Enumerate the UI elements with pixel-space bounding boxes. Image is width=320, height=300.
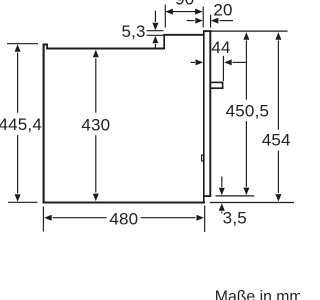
svg-text:450,5: 450,5 [226,101,270,120]
notch on bar left [201,155,203,162]
arrowhead 44 pointing left [224,59,232,65]
dimension line 454 [277,41,279,194]
dimension line 90 [166,11,202,13]
left wall [43,44,45,204]
arrowhead 450,5 down [243,188,249,196]
arrowhead 445,4 up [15,44,21,52]
lower bottom reference line [210,202,294,204]
arrowhead 445,4 down [15,194,21,202]
extension line 480 right [204,206,206,233]
front bar right edge [209,30,211,197]
wall top stub [43,44,49,46]
top reference line right of bar [211,30,288,32]
dimension line 430 [95,59,97,193]
arrowhead 3,5 up [219,203,225,211]
upper bottom reference line [216,195,255,197]
svg-text:20: 20 [213,1,232,20]
extension line 480 left [42,207,44,232]
front bar top edge [203,30,211,32]
white backing 454 [261,130,292,151]
svg-text:430: 430 [81,115,110,134]
front bar left edge [203,30,205,203]
extension line 44 [222,56,224,81]
dimension line 445,4 [17,53,19,194]
svg-text:5,3: 5,3 [121,22,145,41]
dimension line 480 [53,217,196,219]
arrowhead 90 right [195,9,203,15]
svg-text:3,5: 3,5 [223,208,247,227]
extension line bar right top [210,15,212,28]
dimension 5,3 lower shaft [154,44,156,48]
arrowhead 20 pointing left [211,18,219,24]
extension line 90 left [164,5,166,28]
dimension 3,5 lower shaft [221,212,223,214]
arrowhead 430 down [93,194,99,202]
top surface left [46,48,165,50]
front bar bottom edge [203,195,211,197]
arrowhead 480 left [44,215,52,221]
svg-text:44: 44 [211,38,230,57]
arrowhead 454 down [275,194,281,202]
arrowhead 454 up [275,32,281,40]
arrowhead 20 pointing right [195,18,203,24]
tick 445,4 top [7,43,38,45]
arrowhead 90 left [165,9,173,15]
svg-text:445,4: 445,4 [0,115,42,134]
tick 5,3 lower [147,34,164,36]
tick 445,4 bottom [8,201,38,203]
white backing 450,5 [227,100,268,122]
tab right edge [222,82,224,89]
arrowhead 480 right [196,215,204,221]
dimension line 450,5 [245,41,247,187]
top surface right [163,34,203,36]
white backing 445,4 [0,113,42,136]
extension line bar left top [202,7,204,28]
white backing 430 [81,113,112,136]
dimension 20 right shaft [220,20,234,22]
dimension 5,3 upper shaft [154,11,156,22]
box bottom [43,201,206,203]
wall stub right edge [46,44,48,49]
arrowhead 5,3 down [152,23,158,31]
step riser [163,34,165,49]
arrowhead 3,5 down [219,188,225,196]
dimension 20 left shaft [187,20,195,22]
arrowhead 5,3 up [152,36,158,44]
dimension 44 left shaft [191,61,196,63]
svg-text:454: 454 [262,131,291,150]
tab bottom edge [210,87,224,89]
arrowhead 44 pointing right [196,59,204,65]
svg-text:480: 480 [109,210,138,229]
arrowhead 430 up [93,50,99,58]
tick 5,3 upper [147,30,164,32]
dimension 44 right shaft [233,61,247,63]
white backing 480 [107,209,141,226]
svg-text:Maße in mm: Maße in mm [215,288,300,300]
dimension 3,5 upper shaft [221,177,223,188]
arrowhead 450,5 up [243,32,249,40]
svg-text:90: 90 [175,0,194,9]
tab top edge [210,81,224,83]
